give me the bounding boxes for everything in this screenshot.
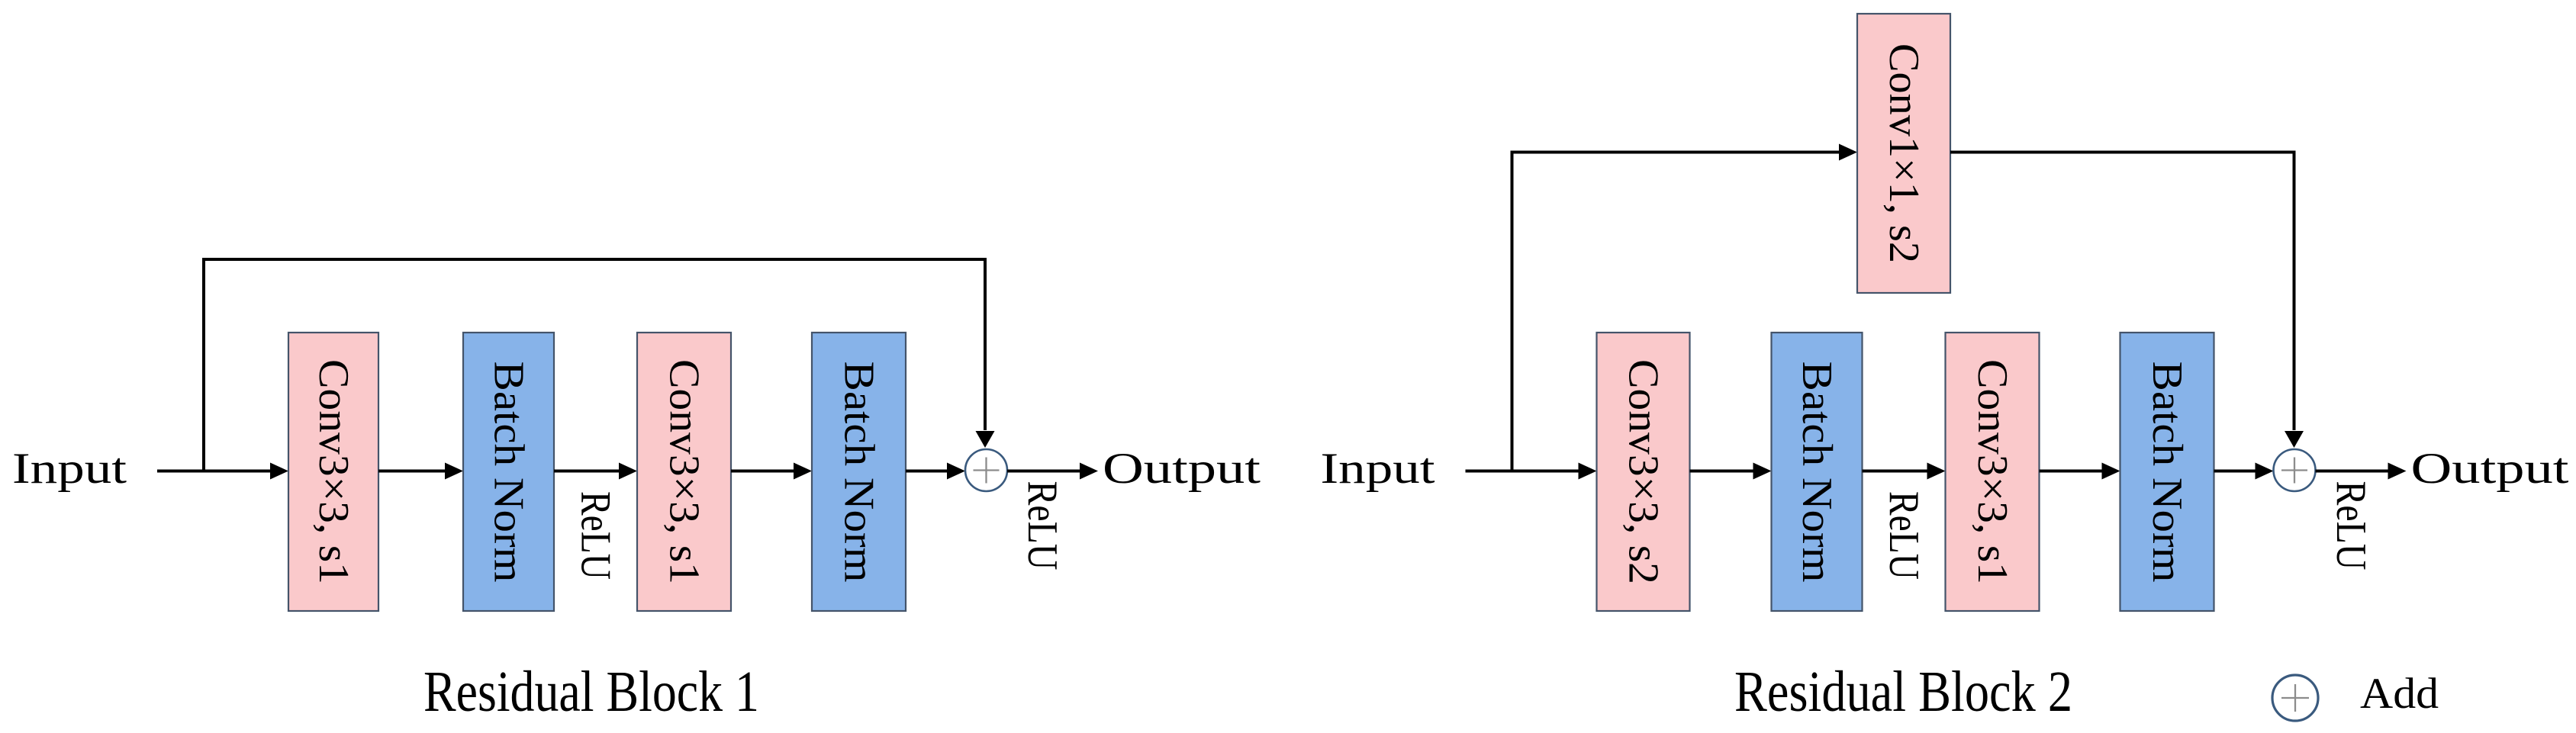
adder circle (right): [2274, 449, 2316, 491]
svg-text:Output: Output: [1103, 445, 1261, 493]
svg-text:Batch Norm: Batch Norm: [836, 362, 883, 583]
svg-text:Conv3×3, s1: Conv3×3, s1: [1969, 359, 2016, 584]
wire BatchNorm2 to adder (right): [2214, 463, 2274, 480]
legend adder symbol: [2272, 675, 2318, 721]
adder circle (left): [965, 449, 1007, 491]
wire Input to Conv3x3 s2 (right): [1466, 463, 1597, 480]
svg-text:Conv3×3, s1: Conv3×3, s1: [661, 359, 708, 584]
block Conv3x3 s1 (right): [1946, 333, 2040, 611]
svg-text:ReLU: ReLU: [1880, 491, 1927, 580]
svg-text:ReLU: ReLU: [572, 491, 620, 580]
block Conv3x3 s1 second (left): [637, 333, 731, 611]
wire Conv1x1 to adder (right): [1950, 153, 2304, 448]
svg-text:ReLU: ReLU: [1019, 481, 1066, 571]
wire Conv to BatchNorm (right): [1690, 463, 1772, 480]
svg-text:Input: Input: [1321, 445, 1435, 493]
svg-text:Residual Block 1: Residual Block 1: [423, 660, 759, 724]
block Batch Norm first (left): [463, 333, 554, 611]
svg-text:Conv3×3, s2: Conv3×3, s2: [1620, 359, 1667, 584]
wire adder to Output (right): [2316, 463, 2407, 480]
svg-text:Input: Input: [12, 445, 127, 493]
svg-text:Batch Norm: Batch Norm: [1793, 362, 1840, 583]
svg-text:Batch Norm: Batch Norm: [2143, 362, 2191, 583]
svg-text:Residual Block 2: Residual Block 2: [1734, 660, 2072, 724]
svg-text:ReLU: ReLU: [2327, 481, 2375, 571]
wire BatchNorm to Conv2 (left): [554, 463, 637, 480]
wire Conv2 to BatchNorm2 (left): [731, 463, 812, 480]
svg-text:Batch Norm: Batch Norm: [485, 362, 533, 583]
svg-text:Output: Output: [2411, 445, 2569, 493]
block Batch Norm second (left): [812, 333, 906, 611]
wire adder to Output (left): [1007, 463, 1098, 480]
block Batch Norm second (right): [2120, 333, 2214, 611]
wire Conv to BatchNorm (left): [378, 463, 463, 480]
svg-text:Conv3×3, s1: Conv3×3, s1: [310, 359, 357, 584]
wire skip connection (left): [204, 259, 995, 471]
wire skip connection into Conv1x1 (right): [1512, 144, 1858, 471]
wire BatchNorm2 to adder (left): [906, 463, 965, 480]
block Batch Norm first (right): [1772, 333, 1863, 611]
block Conv3x3 s2 (right): [1597, 333, 1690, 611]
wire Input to Conv3x3 s1 (left): [157, 463, 288, 480]
wire Conv to BatchNorm2 (right): [2040, 463, 2120, 480]
block Conv1x1 s2 (right skip): [1857, 14, 1950, 293]
wire BatchNorm to Conv3x3 s1 (right): [1863, 463, 1946, 480]
svg-text:Conv1×1, s2: Conv1×1, s2: [1880, 43, 1927, 263]
svg-text:Add: Add: [2360, 670, 2439, 718]
block Conv3x3 s1 first (left): [288, 333, 378, 611]
